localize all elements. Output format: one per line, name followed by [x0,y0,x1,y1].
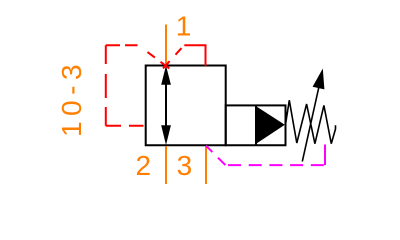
port 2 line [165,146,167,184]
port 3 line [205,146,207,184]
solenoid triangle [257,107,285,144]
red bracket top horizontal [106,44,139,46]
arrowhead up [161,66,171,85]
solenoid box [226,105,286,145]
arrowhead down [161,125,171,145]
magenta vertical up to spring [324,145,326,166]
red corner to box top (over port 3) [184,45,205,65]
valve body envelope [146,66,226,146]
spring [286,100,336,143]
adjustment arrowhead [313,69,325,90]
magenta dashed diagonal from port 3 [206,146,225,165]
svg-text:1: 1 [176,11,192,42]
port 1 line [165,25,167,66]
svg-text:3: 3 [177,150,193,181]
red dashed diagonal right of port 1 [163,48,182,68]
svg-text:10-3: 10-3 [56,59,87,137]
svg-text:2: 2 [136,150,152,181]
adjustment arrow shaft [302,87,319,162]
red bracket bottom horizontal [106,125,146,127]
solenoid divider [255,105,257,145]
red dashed diagonal from port 1 up-left [139,45,170,68]
flow path double arrow shaft [165,83,167,127]
magenta dashed horizontal [225,164,325,166]
red bracket left vertical [105,45,107,126]
